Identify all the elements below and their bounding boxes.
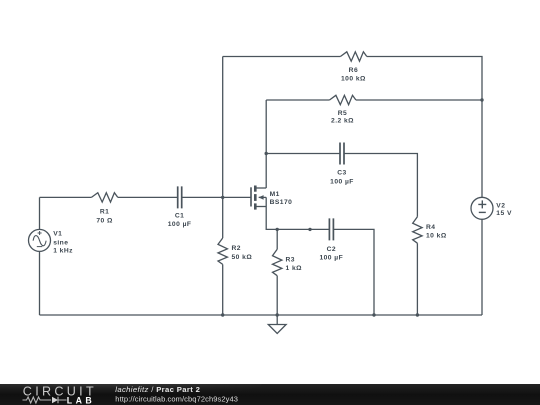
wire left rail top	[222, 57, 224, 239]
V2 minus sign	[479, 211, 486, 213]
wire C1 to gate	[182, 196, 251, 198]
svg-text:lachiefitz / Prac Part 2: lachiefitz / Prac Part 2	[115, 385, 200, 394]
node junction R4-bottom	[416, 313, 419, 316]
svg-text:LAB: LAB	[67, 396, 95, 405]
svg-text:http://circuitlab.com/cbq72ch9: http://circuitlab.com/cbq72ch9s2y43	[115, 395, 238, 404]
M1 channel bar source	[254, 203, 257, 209]
svg-text:V2: V2	[496, 202, 505, 209]
V1 minus sign	[37, 246, 43, 248]
svg-text:100 µF: 100 µF	[319, 255, 343, 262]
svg-text:100 µF: 100 µF	[330, 179, 354, 186]
svg-text:sine: sine	[53, 239, 68, 246]
svg-text:1 kHz: 1 kHz	[53, 247, 73, 254]
wire right rail to V2 top	[481, 100, 483, 197]
V1 plus sign	[38, 231, 42, 235]
wire V1 bottom lead	[39, 251, 41, 315]
V1 sine wave	[33, 236, 46, 246]
svg-text:R5: R5	[338, 110, 347, 117]
svg-text:C1: C1	[175, 213, 184, 220]
wire top R6 right lead to right rail	[367, 57, 482, 101]
wire R1 to C1	[118, 196, 178, 198]
svg-text:R1: R1	[100, 208, 109, 215]
capacitor C2	[329, 218, 333, 240]
capacitor C3	[340, 143, 344, 165]
svg-text:C3: C3	[337, 169, 346, 176]
node junction R2-bottom	[221, 313, 224, 316]
svg-text:100 µF: 100 µF	[168, 221, 192, 228]
node junction R5-right rail	[480, 98, 483, 101]
wire V1 top lead	[39, 197, 41, 229]
V2 plus sign	[478, 200, 486, 208]
M1 channel bar body	[254, 194, 257, 201]
svg-text:70 Ω: 70 Ω	[96, 217, 113, 224]
M1 source lead	[255, 206, 266, 208]
svg-text:M1: M1	[270, 191, 280, 198]
wire R5 left lead	[266, 99, 329, 101]
wire left to R1	[40, 196, 92, 198]
svg-text:V1: V1	[53, 231, 62, 238]
footer logo squiggle resistor diode	[23, 397, 52, 403]
svg-text:15 V: 15 V	[496, 210, 512, 217]
wire R3 bottom lead	[276, 276, 278, 315]
M1 channel bar drain	[254, 186, 257, 192]
wire bottom rail	[40, 314, 483, 316]
resistor R4	[413, 217, 422, 243]
wire drain vertical	[265, 100, 267, 188]
svg-text:50 kΩ: 50 kΩ	[232, 254, 253, 261]
node junction source-R3	[276, 228, 279, 231]
node junction C1-R2-gate	[221, 196, 224, 199]
wire source vertical to row	[266, 197, 329, 229]
capacitor C1	[178, 186, 182, 208]
node junction ground-bottom	[276, 313, 279, 316]
wire R2 bottom lead	[222, 264, 224, 315]
ground stem	[276, 315, 278, 325]
svg-text:R3: R3	[286, 257, 295, 264]
footer bar	[0, 384, 540, 405]
wire R5 right lead	[356, 99, 482, 101]
resistor R1	[91, 193, 117, 202]
svg-text:C2: C2	[327, 246, 336, 253]
svg-text:R6: R6	[349, 67, 358, 74]
resistor R6	[340, 52, 366, 61]
wire C3 right lead to R4	[344, 154, 417, 217]
resistor R3	[273, 249, 282, 275]
M1 body lead	[259, 196, 267, 198]
svg-text:R4: R4	[426, 224, 435, 231]
wire C3 left lead	[266, 153, 340, 155]
M1 drain lead	[255, 187, 266, 189]
wire R3 top lead	[276, 229, 278, 249]
wire V2 bottom to bottom rail	[481, 219, 483, 315]
svg-text:BS170: BS170	[270, 199, 293, 206]
node junction C2-bottom	[372, 313, 375, 316]
voltage source V1	[29, 229, 51, 251]
wire C2 right lead down	[333, 229, 374, 315]
transistor M1 gate bar	[250, 187, 252, 206]
svg-text:R2: R2	[232, 245, 241, 252]
M1 body arrow	[259, 195, 264, 200]
wire R4 bottom lead	[416, 243, 418, 315]
resistor R2	[218, 238, 227, 264]
ground	[268, 325, 286, 334]
svg-text:10 kΩ: 10 kΩ	[426, 232, 447, 239]
node junction source row mid	[308, 228, 311, 231]
node junction drain-C3	[265, 152, 268, 155]
wire top R6 left lead	[223, 56, 341, 58]
svg-text:2.2 kΩ: 2.2 kΩ	[331, 118, 354, 125]
voltage source V2	[471, 197, 493, 219]
svg-text:1 kΩ: 1 kΩ	[286, 265, 303, 272]
resistor R5	[330, 95, 356, 104]
svg-text:100 kΩ: 100 kΩ	[341, 76, 366, 83]
